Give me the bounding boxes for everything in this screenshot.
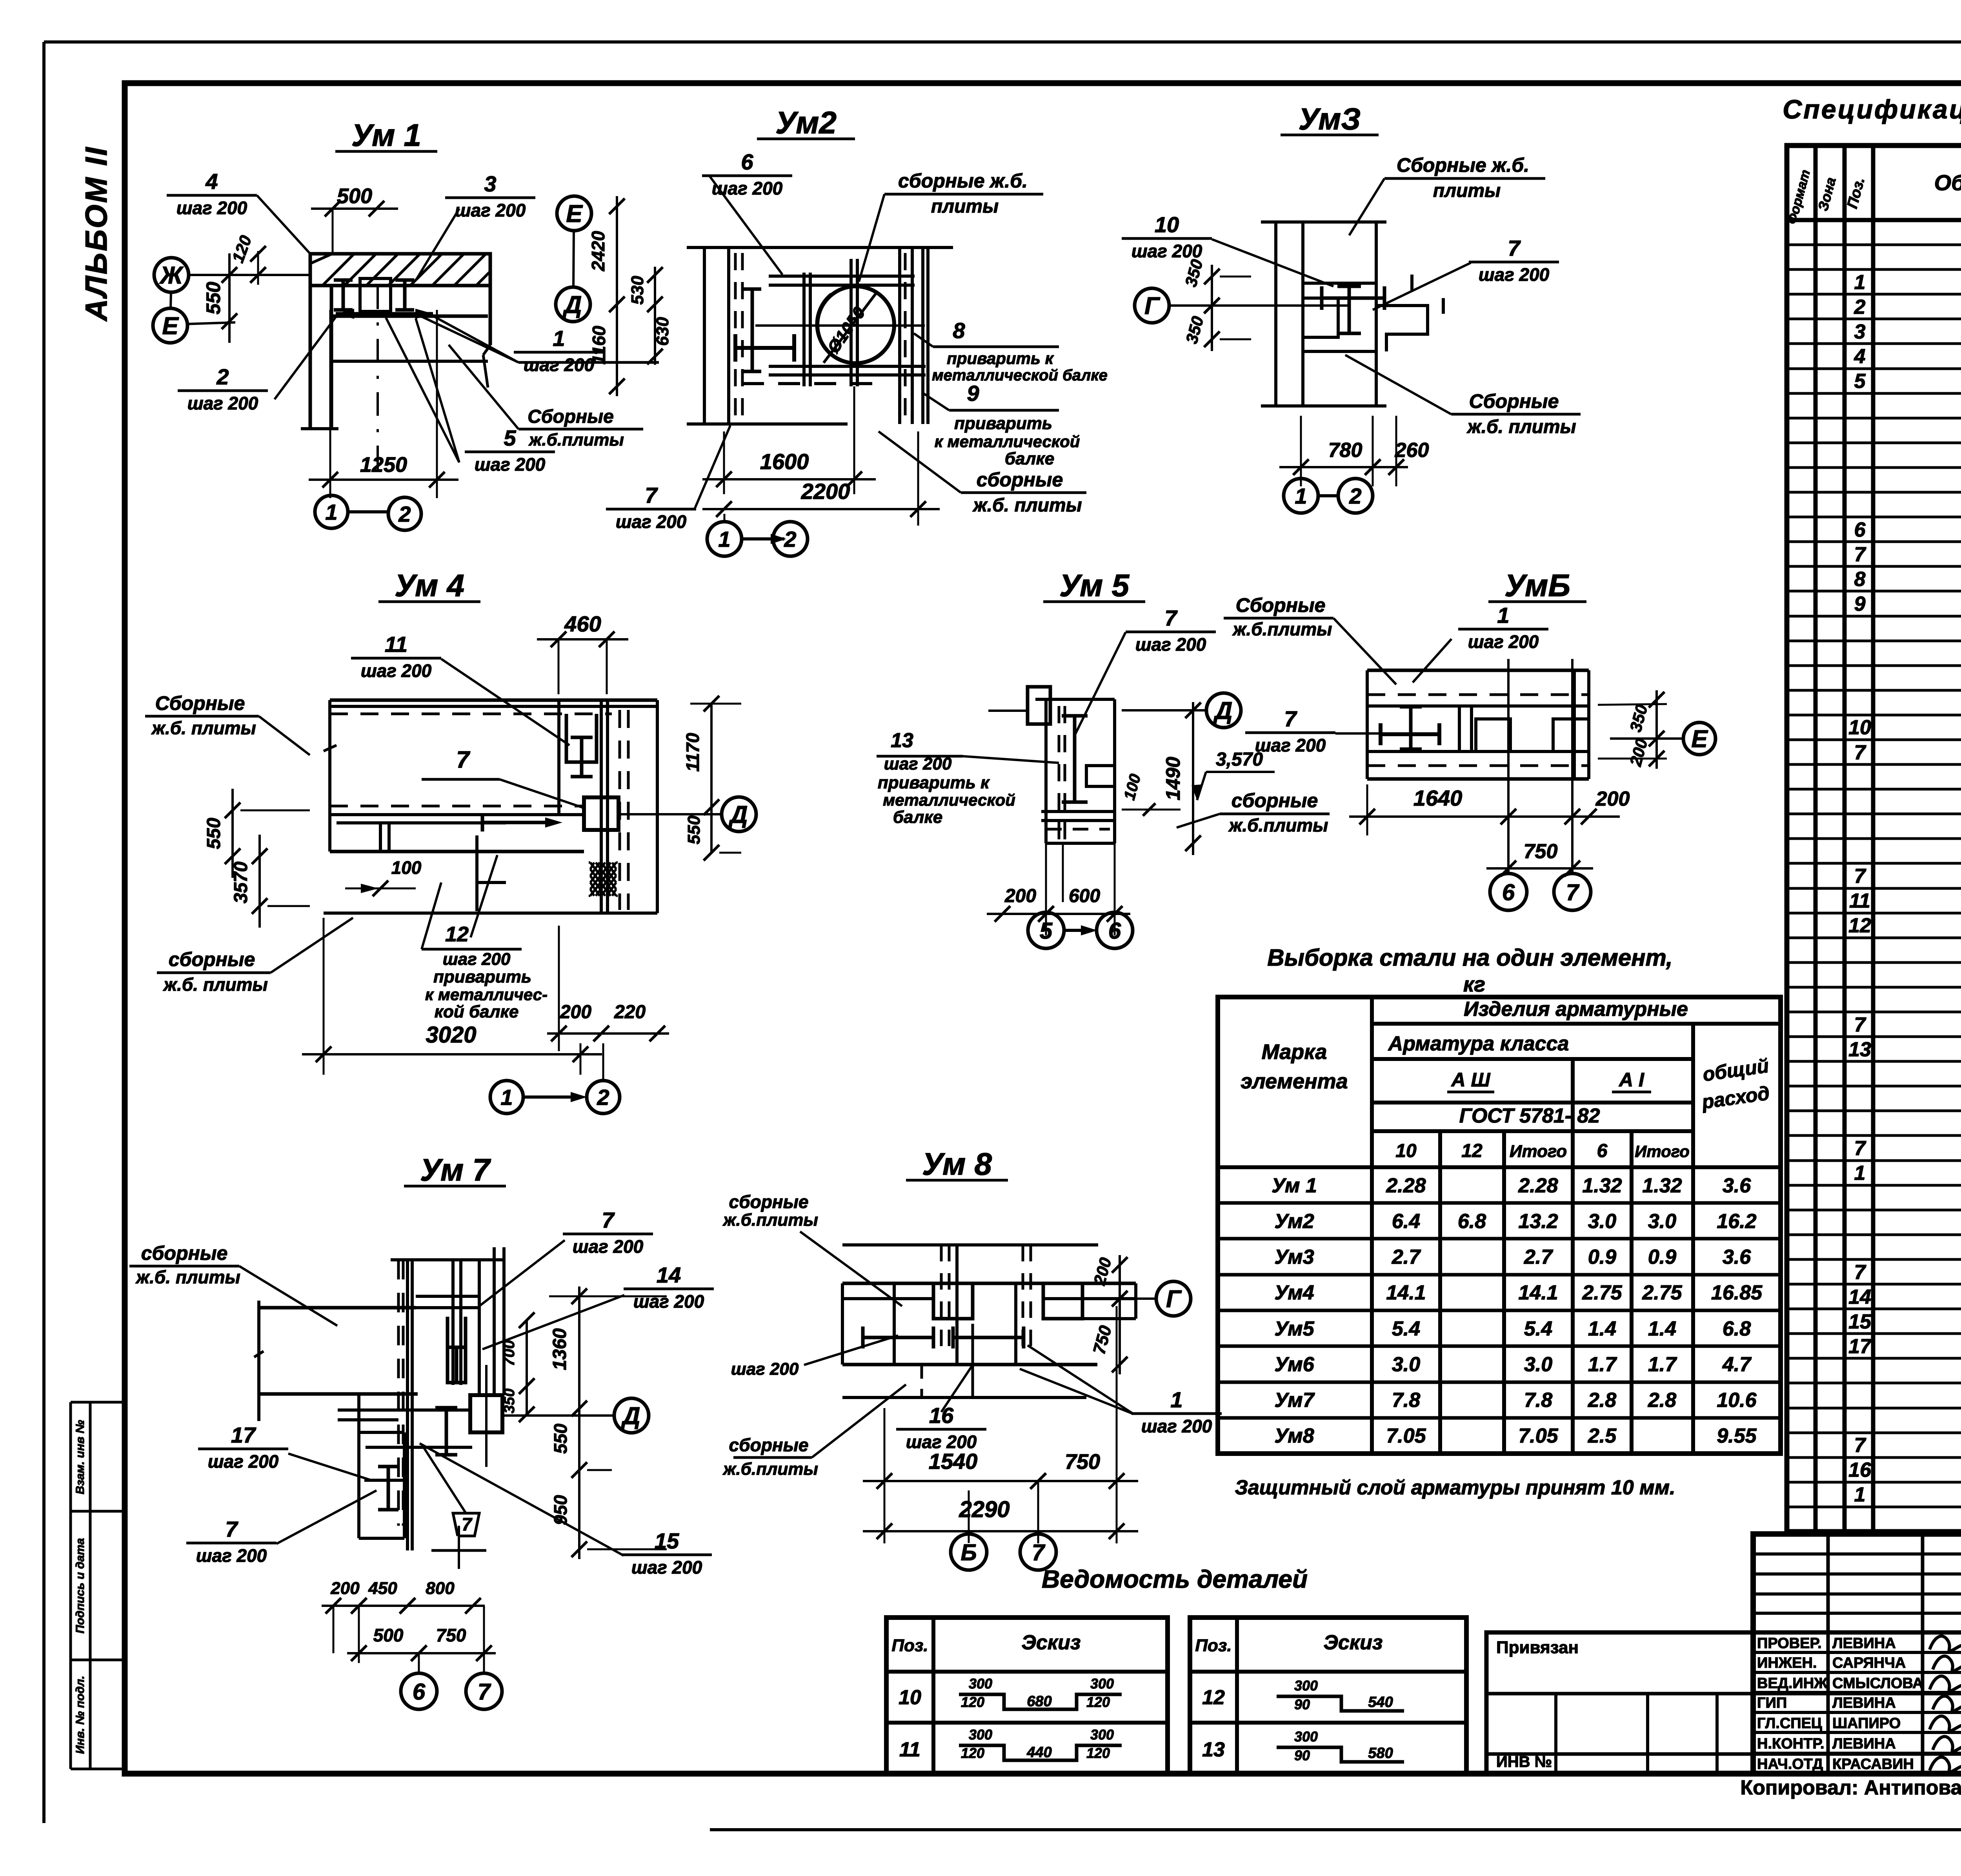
svg-text:7: 7 xyxy=(225,1517,238,1541)
svg-text:7: 7 xyxy=(1854,1261,1866,1284)
parts list table (left) xyxy=(886,1618,1168,1774)
svg-text:7.8: 7.8 xyxy=(1392,1389,1420,1412)
svg-text:12: 12 xyxy=(1848,914,1871,937)
svg-text:балке: балке xyxy=(893,808,942,827)
svg-text:4: 4 xyxy=(1854,345,1866,368)
svg-text:Ведомость деталей: Ведомость деталей xyxy=(1042,1565,1308,1593)
svg-text:14: 14 xyxy=(1848,1286,1871,1308)
svg-text:ж.б.плиты: ж.б.плиты xyxy=(1232,619,1332,639)
svg-text:300: 300 xyxy=(969,1727,992,1743)
svg-text:1250: 1250 xyxy=(360,453,407,477)
svg-text:3570: 3570 xyxy=(231,861,251,903)
svg-text:550: 550 xyxy=(204,818,224,849)
Ум3 axis Г xyxy=(1135,288,1169,323)
Ум1 axis Ж xyxy=(154,258,189,292)
Ум3 dims 780 260 xyxy=(1279,466,1394,468)
svg-text:1: 1 xyxy=(1854,271,1866,294)
svg-text:14.1: 14.1 xyxy=(1386,1281,1426,1304)
svg-text:Ум 4: Ум 4 xyxy=(395,568,464,603)
svg-text:5: 5 xyxy=(504,426,516,450)
Ум7 bottom dims 200 450 800 / 500 750 xyxy=(322,1605,371,1607)
svg-text:СМЫСЛОВА: СМЫСЛОВА xyxy=(1832,1675,1923,1692)
svg-text:приварить: приварить xyxy=(954,414,1052,433)
svg-text:6: 6 xyxy=(1502,880,1515,905)
svg-text:2.7: 2.7 xyxy=(1392,1246,1421,1268)
svg-text:кой балке: кой балке xyxy=(435,1002,519,1021)
Ум5 dim 1490 xyxy=(1192,702,1194,855)
svg-text:1: 1 xyxy=(718,527,730,551)
svg-text:2: 2 xyxy=(1349,484,1361,508)
svg-text:8: 8 xyxy=(953,318,965,343)
svg-text:Спецификация к монолитным уч: Спецификация к монолитным участкам Ум1÷У… xyxy=(1783,95,1961,124)
svg-text:550: 550 xyxy=(550,1423,571,1454)
svg-text:12: 12 xyxy=(445,923,469,946)
svg-text:540: 540 xyxy=(1368,1694,1393,1710)
svg-text:ЛЕВИНА: ЛЕВИНА xyxy=(1832,1695,1896,1711)
svg-text:к металличес-: к металличес- xyxy=(425,985,548,1004)
svg-text:балке: балке xyxy=(1005,449,1054,468)
svg-text:1: 1 xyxy=(1854,1483,1866,1506)
svg-text:6.8: 6.8 xyxy=(1723,1317,1751,1340)
svg-text:3: 3 xyxy=(1854,320,1866,343)
Ум1 hatched slab section xyxy=(310,254,490,286)
specification table grid xyxy=(1787,146,1961,1532)
svg-text:6: 6 xyxy=(1597,1141,1608,1161)
svg-text:7: 7 xyxy=(1854,1137,1866,1160)
Ум7 top plate joint grid xyxy=(451,1260,455,1385)
svg-text:17: 17 xyxy=(1848,1335,1872,1358)
svg-text:1: 1 xyxy=(553,326,565,351)
svg-text:120: 120 xyxy=(961,1694,984,1710)
svg-text:Ум6: Ум6 xyxy=(1274,1353,1314,1376)
Ум6 dim 1640 + 200 xyxy=(1349,815,1620,818)
svg-text:Д: Д xyxy=(562,291,582,318)
svg-text:3020: 3020 xyxy=(426,1022,476,1048)
svg-text:ИНВ №: ИНВ № xyxy=(1496,1753,1552,1770)
svg-text:1160: 1160 xyxy=(589,326,609,364)
svg-text:ЛЕВИНА: ЛЕВИНА xyxy=(1832,1736,1896,1752)
svg-text:Д: Д xyxy=(1213,697,1233,724)
svg-text:Итого: Итого xyxy=(1635,1142,1690,1161)
svg-text:7: 7 xyxy=(1854,1434,1866,1457)
Ум5 top corner block xyxy=(1028,687,1050,724)
svg-text:Д: Д xyxy=(728,801,748,828)
svg-text:Г: Г xyxy=(1144,293,1161,320)
svg-text:ж.б.плиты: ж.б.плиты xyxy=(722,1459,818,1479)
svg-text:3.0: 3.0 xyxy=(1524,1353,1552,1376)
svg-text:5.4: 5.4 xyxy=(1392,1317,1420,1340)
svg-text:3.6: 3.6 xyxy=(1723,1246,1751,1268)
svg-text:шаг 200: шаг 200 xyxy=(1135,634,1206,655)
Ум1 dim 1250 (bottom) xyxy=(309,479,458,481)
Ум7 label 7 (flag) xyxy=(453,1513,479,1536)
svg-text:16.2: 16.2 xyxy=(1717,1210,1756,1233)
Ум7 vertical wall band xyxy=(397,1260,400,1526)
svg-text:7: 7 xyxy=(602,1208,615,1232)
Ум4 joint rebar pocket xyxy=(566,714,597,762)
svg-text:300: 300 xyxy=(1294,1678,1318,1694)
svg-text:200: 200 xyxy=(560,1002,591,1023)
svg-text:200: 200 xyxy=(1595,788,1630,810)
svg-text:Арматура класса: Арматура класса xyxy=(1388,1032,1569,1055)
svg-text:НАЧ.ОТД: НАЧ.ОТД xyxy=(1757,1756,1823,1772)
Ум5 axis Д xyxy=(1206,693,1241,728)
signature grid xyxy=(1753,1552,1961,1556)
svg-text:750: 750 xyxy=(1065,1450,1100,1474)
svg-text:шаг 200: шаг 200 xyxy=(573,1236,644,1257)
svg-text:10: 10 xyxy=(1848,716,1871,739)
svg-text:Г: Г xyxy=(1166,1286,1182,1313)
svg-text:2: 2 xyxy=(398,502,411,526)
svg-text:950: 950 xyxy=(550,1495,571,1525)
Ум3 step outline right xyxy=(1376,306,1428,351)
svg-text:750: 750 xyxy=(436,1625,466,1645)
svg-text:2: 2 xyxy=(1854,296,1866,318)
svg-text:300: 300 xyxy=(969,1676,992,1692)
svg-text:2.5: 2.5 xyxy=(1588,1425,1617,1447)
svg-text:шаг 200: шаг 200 xyxy=(475,454,546,475)
svg-text:кг: кг xyxy=(1463,973,1485,996)
svg-text:12: 12 xyxy=(1461,1141,1483,1161)
svg-text:Поз.: Поз. xyxy=(1195,1636,1232,1655)
svg-text:1: 1 xyxy=(1295,484,1307,508)
svg-text:1: 1 xyxy=(500,1085,513,1110)
svg-text:200: 200 xyxy=(1004,886,1036,906)
svg-text:11: 11 xyxy=(899,1738,920,1761)
svg-text:300: 300 xyxy=(1090,1676,1114,1692)
Ум8 slab band outline xyxy=(842,1282,1136,1285)
svg-text:Ум2: Ум2 xyxy=(775,105,837,140)
привязан box xyxy=(1486,1632,1961,1774)
Ум2 dim 1600 xyxy=(702,478,876,480)
svg-text:800: 800 xyxy=(426,1579,455,1598)
Ум3 wall verticals xyxy=(1274,222,1277,406)
Ум7 section circles 6-7 xyxy=(401,1673,437,1709)
svg-text:Эскиз: Эскиз xyxy=(1022,1631,1081,1654)
svg-text:7: 7 xyxy=(1854,1014,1866,1036)
svg-text:ГЛ.СПЕЦ: ГЛ.СПЕЦ xyxy=(1757,1715,1822,1732)
svg-text:ж.б.плиты: ж.б.плиты xyxy=(1228,815,1328,835)
svg-text:10.6: 10.6 xyxy=(1717,1389,1757,1412)
svg-text:17: 17 xyxy=(231,1423,256,1447)
Ум4 upper slab outline xyxy=(330,699,657,702)
svg-text:Сборные: Сборные xyxy=(155,692,245,714)
svg-text:УмБ: УмБ xyxy=(1504,568,1570,603)
svg-text:шаг 200: шаг 200 xyxy=(1468,631,1539,652)
svg-text:1.7: 1.7 xyxy=(1588,1353,1617,1376)
Ум4 slab bottom lines xyxy=(330,805,584,808)
svg-text:ж.б. плиты: ж.б. плиты xyxy=(135,1267,240,1287)
svg-text:6: 6 xyxy=(413,1679,426,1705)
svg-text:приварить: приварить xyxy=(433,967,531,986)
svg-text:13.2: 13.2 xyxy=(1518,1210,1558,1233)
Ум1 precast plate under slab xyxy=(331,315,488,318)
svg-text:к металлической: к металлической xyxy=(935,432,1080,451)
Ум1 bottom anchor bar xyxy=(336,312,433,316)
svg-text:1.4: 1.4 xyxy=(1648,1317,1676,1340)
svg-text:Ум2: Ум2 xyxy=(1274,1210,1314,1233)
svg-text:2.75: 2.75 xyxy=(1642,1281,1682,1304)
svg-text:Ум 8: Ум 8 xyxy=(922,1146,992,1181)
Ум4 hatch patch xyxy=(590,862,616,896)
svg-text:1.32: 1.32 xyxy=(1582,1174,1622,1197)
svg-text:Защитный слой арматуры п: Защитный слой арматуры принят 10 мм. xyxy=(1235,1476,1675,1499)
svg-text:2.28: 2.28 xyxy=(1386,1174,1426,1197)
Ум8 dashed plate joints xyxy=(940,1245,943,1357)
svg-text:2: 2 xyxy=(597,1085,609,1110)
svg-text:Сборные: Сборные xyxy=(528,406,614,427)
svg-text:шаг 200: шаг 200 xyxy=(1479,264,1550,285)
svg-text:шаг 200: шаг 200 xyxy=(196,1545,267,1566)
Ум5 wall band xyxy=(1035,698,1115,701)
svg-text:9: 9 xyxy=(967,381,979,406)
svg-text:Ум5: Ум5 xyxy=(1274,1317,1314,1340)
svg-text:Обозначение: Обозначение xyxy=(1934,170,1961,195)
svg-text:Е: Е xyxy=(1691,726,1708,753)
svg-text:3: 3 xyxy=(484,171,496,196)
svg-text:Ум3: Ум3 xyxy=(1274,1246,1314,1268)
svg-text:7: 7 xyxy=(1854,543,1866,566)
Ум1 slab right broken edge xyxy=(489,254,492,345)
svg-text:Изделия арматурные: Изделия арматурные xyxy=(1464,998,1688,1021)
svg-text:9: 9 xyxy=(1854,593,1866,615)
svg-text:7: 7 xyxy=(1854,741,1866,764)
outer page border xyxy=(44,40,1961,44)
parts list table (right) xyxy=(1190,1618,1466,1774)
svg-text:Ж: Ж xyxy=(159,262,184,289)
Ум8 lower broken line xyxy=(842,1396,1086,1399)
svg-text:10: 10 xyxy=(899,1686,921,1709)
svg-text:530: 530 xyxy=(628,276,647,305)
svg-text:6: 6 xyxy=(741,149,753,174)
svg-text:5: 5 xyxy=(1040,918,1053,944)
svg-text:5: 5 xyxy=(1854,370,1866,393)
svg-text:7: 7 xyxy=(1032,1540,1046,1565)
Ум6 section circles 6-7 xyxy=(1490,873,1527,910)
svg-text:16: 16 xyxy=(1848,1459,1872,1481)
svg-text:4: 4 xyxy=(205,169,218,194)
svg-text:15: 15 xyxy=(1848,1310,1872,1333)
Ум4 right vertical dims 1170 550 xyxy=(710,704,713,853)
svg-text:металлической: металлической xyxy=(883,791,1015,809)
Ум1 section circles 1-2 xyxy=(315,495,348,528)
svg-text:16.85: 16.85 xyxy=(1711,1281,1763,1304)
Ум1 rebar tees xyxy=(342,280,345,310)
svg-text:500: 500 xyxy=(337,184,372,208)
Ум2 wall I-beam rebar xyxy=(751,289,754,371)
svg-text:Подпись и дата: Подпись и дата xyxy=(74,1538,87,1633)
svg-text:600: 600 xyxy=(1069,886,1100,906)
svg-text:сборные: сборные xyxy=(169,948,255,970)
svg-text:шаг 200: шаг 200 xyxy=(455,200,526,220)
Ум3 section circles 1-2 xyxy=(1284,479,1318,513)
svg-text:14.1: 14.1 xyxy=(1518,1281,1558,1304)
Ум1 joint pocket xyxy=(360,278,391,311)
svg-text:11: 11 xyxy=(1849,890,1870,912)
svg-text:750: 750 xyxy=(1524,840,1558,863)
svg-text:2: 2 xyxy=(784,527,796,551)
Ум2 section circles 1-2 xyxy=(707,522,742,556)
steel summary table grid xyxy=(1218,997,1781,1454)
svg-text:300: 300 xyxy=(1090,1727,1114,1743)
svg-text:ВЕД.ИНЖ: ВЕД.ИНЖ xyxy=(1757,1675,1828,1692)
Ум7 U pocket xyxy=(448,1317,466,1383)
svg-text:приварить к: приварить к xyxy=(947,349,1054,368)
svg-text:630: 630 xyxy=(653,317,672,346)
svg-text:1.4: 1.4 xyxy=(1588,1317,1616,1340)
svg-text:шаг 200: шаг 200 xyxy=(208,1451,279,1472)
Ум7 central box xyxy=(470,1395,502,1432)
svg-text:Н.КОНТР.: Н.КОНТР. xyxy=(1757,1736,1825,1752)
Ум7 top horizontal xyxy=(391,1258,504,1261)
svg-text:сборные: сборные xyxy=(1232,790,1318,812)
svg-text:14: 14 xyxy=(657,1263,681,1287)
svg-text:2200: 2200 xyxy=(801,479,850,504)
svg-text:3.0: 3.0 xyxy=(1648,1210,1676,1233)
Ум7 rebar tees lower xyxy=(445,1408,448,1455)
svg-text:А I: А I xyxy=(1618,1069,1644,1091)
svg-text:11: 11 xyxy=(385,632,407,657)
Ум1 right axis circles Е Д xyxy=(557,196,591,231)
Ум4 dim 3020 xyxy=(302,1053,602,1055)
svg-text:220: 220 xyxy=(614,1002,646,1023)
svg-text:0.9: 0.9 xyxy=(1588,1246,1616,1268)
Ум5 section circles 5-6 xyxy=(1028,912,1064,948)
Ум6 dims 350 200 (right) xyxy=(1655,690,1658,769)
svg-text:сборные: сборные xyxy=(977,469,1063,491)
svg-text:шаг 200: шаг 200 xyxy=(443,950,511,969)
svg-text:Д: Д xyxy=(621,1403,640,1430)
svg-text:300: 300 xyxy=(1294,1729,1318,1745)
svg-text:шаг 200: шаг 200 xyxy=(731,1359,799,1379)
Ум1 axis Е xyxy=(153,308,187,343)
Ум8 dim 2290 xyxy=(863,1530,1138,1532)
svg-text:1: 1 xyxy=(1854,1162,1866,1185)
Ум2 top slab line with breaks xyxy=(687,246,953,249)
svg-text:ж.б. плиты: ж.б. плиты xyxy=(972,495,1082,516)
Ум6 rebar cross xyxy=(1409,707,1413,749)
Ум2 slab rebar horizontals xyxy=(769,275,915,278)
svg-text:550: 550 xyxy=(202,282,224,315)
svg-text:шаг 200: шаг 200 xyxy=(631,1557,702,1578)
Ум4 dim 460 (top) xyxy=(537,638,628,640)
svg-text:сборные ж.б.: сборные ж.б. xyxy=(898,170,1028,192)
svg-text:шаг 200: шаг 200 xyxy=(524,355,595,375)
svg-text:Сборные: Сборные xyxy=(1236,594,1326,616)
svg-text:6: 6 xyxy=(1854,519,1866,541)
svg-text:А Ш: А Ш xyxy=(1451,1069,1491,1091)
svg-text:2.75: 2.75 xyxy=(1582,1281,1622,1304)
svg-text:сборные: сборные xyxy=(729,1435,809,1455)
svg-text:ИНЖЕН.: ИНЖЕН. xyxy=(1757,1655,1817,1671)
svg-text:ПРОВЕР.: ПРОВЕР. xyxy=(1757,1635,1822,1652)
svg-text:1360: 1360 xyxy=(549,1328,570,1370)
svg-text:Выборка стали на один элем: Выборка стали на один элемент, xyxy=(1267,944,1672,971)
svg-text:плиты: плиты xyxy=(1433,180,1501,201)
svg-text:САРЯНЧА: САРЯНЧА xyxy=(1832,1655,1906,1671)
svg-text:13: 13 xyxy=(1202,1738,1225,1761)
svg-text:КРАСАВИН: КРАСАВИН xyxy=(1832,1756,1914,1772)
Ум1 dim 550 (left vertical) xyxy=(228,253,231,343)
svg-text:700: 700 xyxy=(500,1340,518,1367)
svg-text:Привязан: Привязан xyxy=(1496,1638,1579,1657)
svg-text:Ум7: Ум7 xyxy=(1274,1389,1315,1412)
svg-text:ГИП: ГИП xyxy=(1757,1695,1787,1711)
Ум1 dim 120 (small) xyxy=(257,251,259,285)
svg-text:приварить к: приварить к xyxy=(878,773,990,792)
Ум8 axis Г xyxy=(1156,1281,1191,1316)
Ум1 dim 500 (top) xyxy=(311,207,398,210)
svg-text:3.0: 3.0 xyxy=(1588,1210,1616,1233)
svg-text:1600: 1600 xyxy=(760,449,809,474)
Ум4 axis Д xyxy=(722,797,756,832)
Ум4 center box xyxy=(584,797,618,830)
svg-text:7: 7 xyxy=(456,746,470,773)
svg-text:7.05: 7.05 xyxy=(1518,1425,1558,1447)
svg-text:10: 10 xyxy=(1155,212,1179,237)
svg-text:200: 200 xyxy=(330,1579,360,1598)
svg-text:7: 7 xyxy=(645,483,658,508)
svg-text:460: 460 xyxy=(564,611,601,636)
Ум2 rebar verticals xyxy=(802,273,806,386)
svg-text:3.6: 3.6 xyxy=(1723,1174,1751,1197)
Ум4 dims 550 3570 (left) xyxy=(231,789,234,878)
Ум6 dim 750 xyxy=(1486,867,1593,870)
svg-text:Ум4: Ум4 xyxy=(1274,1281,1314,1304)
svg-text:2420: 2420 xyxy=(588,231,608,271)
svg-text:2: 2 xyxy=(216,364,229,389)
title block outer xyxy=(1753,1534,1961,1774)
svg-text:ЛЕВИНА: ЛЕВИНА xyxy=(1832,1635,1896,1652)
svg-text:элемента: элемента xyxy=(1241,1070,1348,1093)
svg-text:550: 550 xyxy=(684,815,704,844)
svg-text:2.7: 2.7 xyxy=(1524,1246,1553,1268)
Ум6 joint verticals xyxy=(1458,706,1461,751)
svg-text:12: 12 xyxy=(1202,1686,1225,1709)
Ум7 lower-left block xyxy=(357,1395,360,1538)
svg-text:1490: 1490 xyxy=(1162,757,1184,800)
Ум4 bent bar detail with arrow xyxy=(482,821,545,824)
svg-text:100: 100 xyxy=(391,857,422,878)
svg-text:90: 90 xyxy=(1294,1696,1310,1712)
Ум5 rebar vertical xyxy=(1073,716,1077,802)
svg-text:шаг 200: шаг 200 xyxy=(1131,241,1202,261)
svg-text:шаг 200: шаг 200 xyxy=(884,754,952,773)
svg-text:1: 1 xyxy=(1170,1387,1182,1412)
svg-text:2.8: 2.8 xyxy=(1648,1389,1676,1412)
svg-text:1170: 1170 xyxy=(682,733,703,772)
svg-text:Е: Е xyxy=(566,200,583,227)
svg-text:Ум8: Ум8 xyxy=(1274,1425,1314,1447)
svg-text:Взам. инв №: Взам. инв № xyxy=(74,1420,87,1494)
svg-text:плиты: плиты xyxy=(931,196,999,217)
Ум7 right dims 1360 550 950 xyxy=(578,1286,580,1559)
svg-text:Сборные: Сборные xyxy=(1469,390,1559,412)
Ум4 bottom broken line xyxy=(324,912,657,915)
Ум7 mid horizontal lines xyxy=(338,1408,470,1412)
svg-text:7: 7 xyxy=(1284,706,1297,731)
svg-text:ж.б. плиты: ж.б. плиты xyxy=(1466,417,1576,437)
svg-text:Ум 1: Ум 1 xyxy=(351,118,421,153)
svg-text:УмЗ: УмЗ xyxy=(1299,102,1361,136)
svg-text:шаг 200: шаг 200 xyxy=(633,1291,704,1312)
svg-text:1.32: 1.32 xyxy=(1642,1174,1682,1197)
svg-text:Итого: Итого xyxy=(1510,1142,1567,1161)
svg-text:АЛЬБОМ II: АЛЬБОМ II xyxy=(79,146,113,322)
Ум4 section circles 1-2 xyxy=(490,1081,523,1114)
svg-text:6.4: 6.4 xyxy=(1392,1210,1420,1233)
svg-text:7: 7 xyxy=(1854,865,1866,888)
